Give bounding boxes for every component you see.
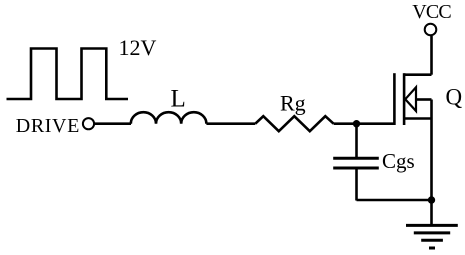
wire drain xyxy=(430,36,433,75)
ground xyxy=(406,225,458,248)
capacitor Cgs xyxy=(333,158,379,168)
inductor L xyxy=(131,112,207,124)
wire xyxy=(430,100,433,226)
transistor Q xyxy=(394,73,431,125)
svg-text:Rg: Rg xyxy=(280,90,306,115)
wire xyxy=(334,122,395,125)
terminal DRIVE xyxy=(83,118,94,129)
square wave source symbol xyxy=(7,49,129,100)
wire xyxy=(355,124,358,159)
svg-text:L: L xyxy=(171,86,186,113)
wire xyxy=(355,168,358,201)
junction gate node xyxy=(353,120,360,127)
svg-text:DRIVE: DRIVE xyxy=(16,115,80,137)
terminal VCC xyxy=(425,24,437,36)
junction source node xyxy=(428,196,435,203)
svg-text:12V: 12V xyxy=(119,35,157,60)
svg-text:VCC: VCC xyxy=(412,1,451,23)
resistor Rg xyxy=(255,116,333,131)
svg-text:Cgs: Cgs xyxy=(382,149,415,173)
wire xyxy=(357,199,432,202)
svg-text:Q: Q xyxy=(446,85,463,110)
wire xyxy=(95,122,131,125)
wire xyxy=(206,122,255,125)
